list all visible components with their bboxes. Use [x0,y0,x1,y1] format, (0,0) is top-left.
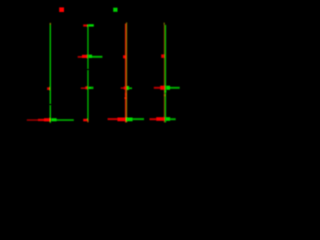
column 4 junction E green thick [166,86,170,90]
column 1 green bar thin [51,119,74,121]
column 2 junction A green thin [92,56,102,58]
column 2 junction B green tick [89,87,94,89]
column 1 vertical line [50,25,51,123]
column 4 red tick [161,54,164,58]
column 4 junction F green thin [170,118,176,120]
column 2 junction A red thick [82,55,87,58]
column 2 top cap red [83,24,87,26]
column 4 green dot [165,90,166,92]
column 1 red tick [47,87,50,90]
column 2 junction B red thick [85,86,87,89]
column 4 junction E red thick [160,86,165,90]
column 4 brown line [164,25,165,123]
column 1 red bar mid [38,119,50,121]
column 1 red bar thick [44,118,50,121]
column 2 bottom tip [87,120,88,122]
column 3 junction D red thin [108,118,118,120]
column 4 line tip [164,23,165,25]
column 1 red bar thin [27,119,50,121]
column 3 junction D green thin [133,118,144,120]
legend marker red [59,7,64,12]
column 4 junction E red thin [154,87,160,89]
column 3 red dot [125,97,127,99]
column 2 junction A green thick [89,55,92,58]
column 4 junction F red thin [150,118,157,120]
column 4 junction F green thick [166,117,170,121]
column 4 green line [165,25,166,123]
column 2 junction B red thin [81,87,85,89]
column 3 red tick [123,55,125,58]
column 2 junction B green tail [91,87,93,89]
column 3 junction D green thick [126,118,133,122]
column 1 line tip [50,23,51,25]
column 3 bright segment [125,93,126,96]
column 2 top cap green [89,24,94,26]
column 3 red vertical line [125,24,126,123]
column 2 dark notch [87,69,89,71]
column 2 red tick [83,119,87,122]
column 3 junction D red thick [117,118,125,122]
column 4 junction F red thick [156,117,164,121]
column 3 junction C red thick [124,86,126,89]
column 3 olive line [126,22,127,122]
column 4 junction E green thin [170,87,180,89]
column 4 orange dot [164,94,165,96]
column 2 vertical line [87,24,88,120]
column 3 junction C red thin [121,87,124,89]
column 2 junction A red thin [78,56,82,58]
column 3 line bright at tick [125,56,126,60]
column 3 junction C green thin [129,87,132,89]
column 1 dark notch [49,104,51,106]
column 1 green bar thick [51,118,56,121]
legend marker green [113,8,117,12]
column 3 junction C green thick [127,86,129,90]
